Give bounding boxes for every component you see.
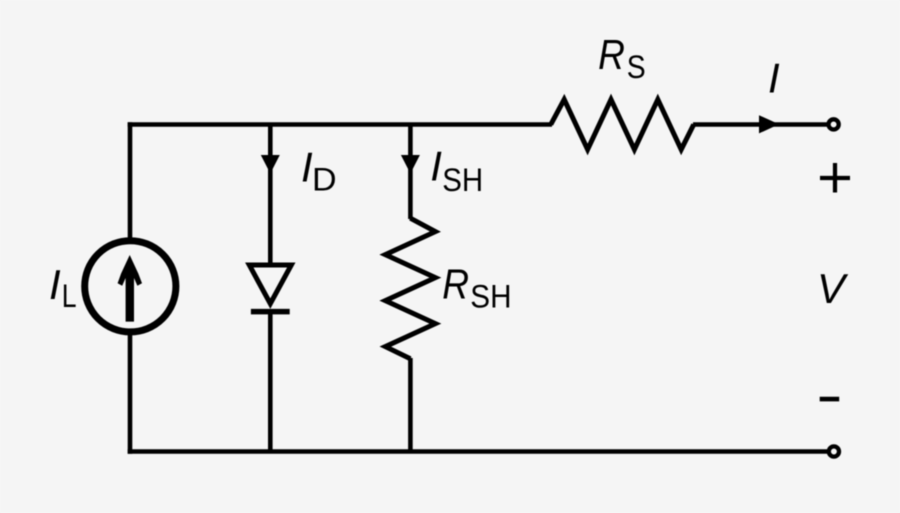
wire: diode branch upper segment [268, 125, 273, 265]
svg-text:D: D [312, 161, 337, 197]
wire: shunt branch lower segment [408, 358, 413, 452]
svg-text:I: I [430, 142, 442, 189]
terminal: negative output node [829, 446, 839, 456]
svg-text:I: I [768, 55, 780, 102]
resistor R_S zigzag [551, 100, 694, 150]
wire: top rail from left rail to R_S [128, 122, 552, 127]
resistor R_SH zigzag [385, 218, 435, 359]
arrow: shunt current I_SH direction [401, 155, 420, 174]
svg-text:SH: SH [442, 162, 483, 198]
svg-text:R: R [598, 31, 625, 78]
svg-text:S: S [627, 49, 646, 85]
wire: diode branch lower segment [268, 312, 273, 452]
wire: shunt branch upper segment [408, 125, 413, 220]
wire: left rail lower segment [128, 334, 133, 454]
arrow: output current I direction [759, 115, 779, 133]
current source I_L circle [85, 241, 176, 332]
svg-text:V: V [817, 265, 849, 312]
diode D triangle [249, 265, 291, 304]
arrow: diode current I_D direction [261, 155, 280, 174]
wire: left rail upper segment [128, 122, 133, 238]
svg-text:I: I [49, 261, 61, 308]
svg-text:L: L [62, 278, 77, 314]
svg-text:SH: SH [470, 278, 511, 314]
wire: bottom rail [128, 449, 828, 454]
label: plus sign at positive terminal [820, 163, 850, 193]
label: minus sign at negative terminal [820, 397, 840, 402]
svg-text:R: R [442, 260, 469, 307]
diode D cathode bar [251, 309, 290, 315]
wire: top rail from R_S to positive terminal [693, 122, 827, 127]
terminal: positive output node [829, 119, 839, 129]
current source arrow (inside circle) [118, 255, 142, 322]
